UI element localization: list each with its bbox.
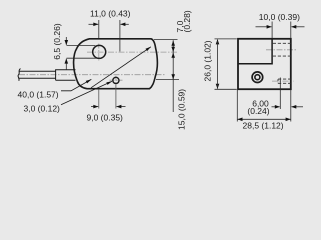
- svg-text:(0.24): (0.24): [247, 106, 269, 116]
- svg-text:9,0 (0.35): 9,0 (0.35): [87, 113, 124, 123]
- svg-text:(0.28): (0.28): [182, 10, 192, 32]
- svg-text:6,5 (0.26): 6,5 (0.26): [52, 23, 62, 60]
- svg-text:11,0 (0.43): 11,0 (0.43): [90, 8, 131, 18]
- svg-text:40,0 (1.57): 40,0 (1.57): [18, 89, 59, 99]
- svg-text:10,0 (0.39): 10,0 (0.39): [259, 12, 300, 22]
- svg-text:3,0 (0.12): 3,0 (0.12): [24, 103, 61, 113]
- svg-text:26,0 (1.02): 26,0 (1.02): [203, 40, 213, 81]
- svg-text:15,0 (0.59): 15,0 (0.59): [177, 89, 187, 130]
- svg-text:28,5 (1.12): 28,5 (1.12): [243, 121, 284, 131]
